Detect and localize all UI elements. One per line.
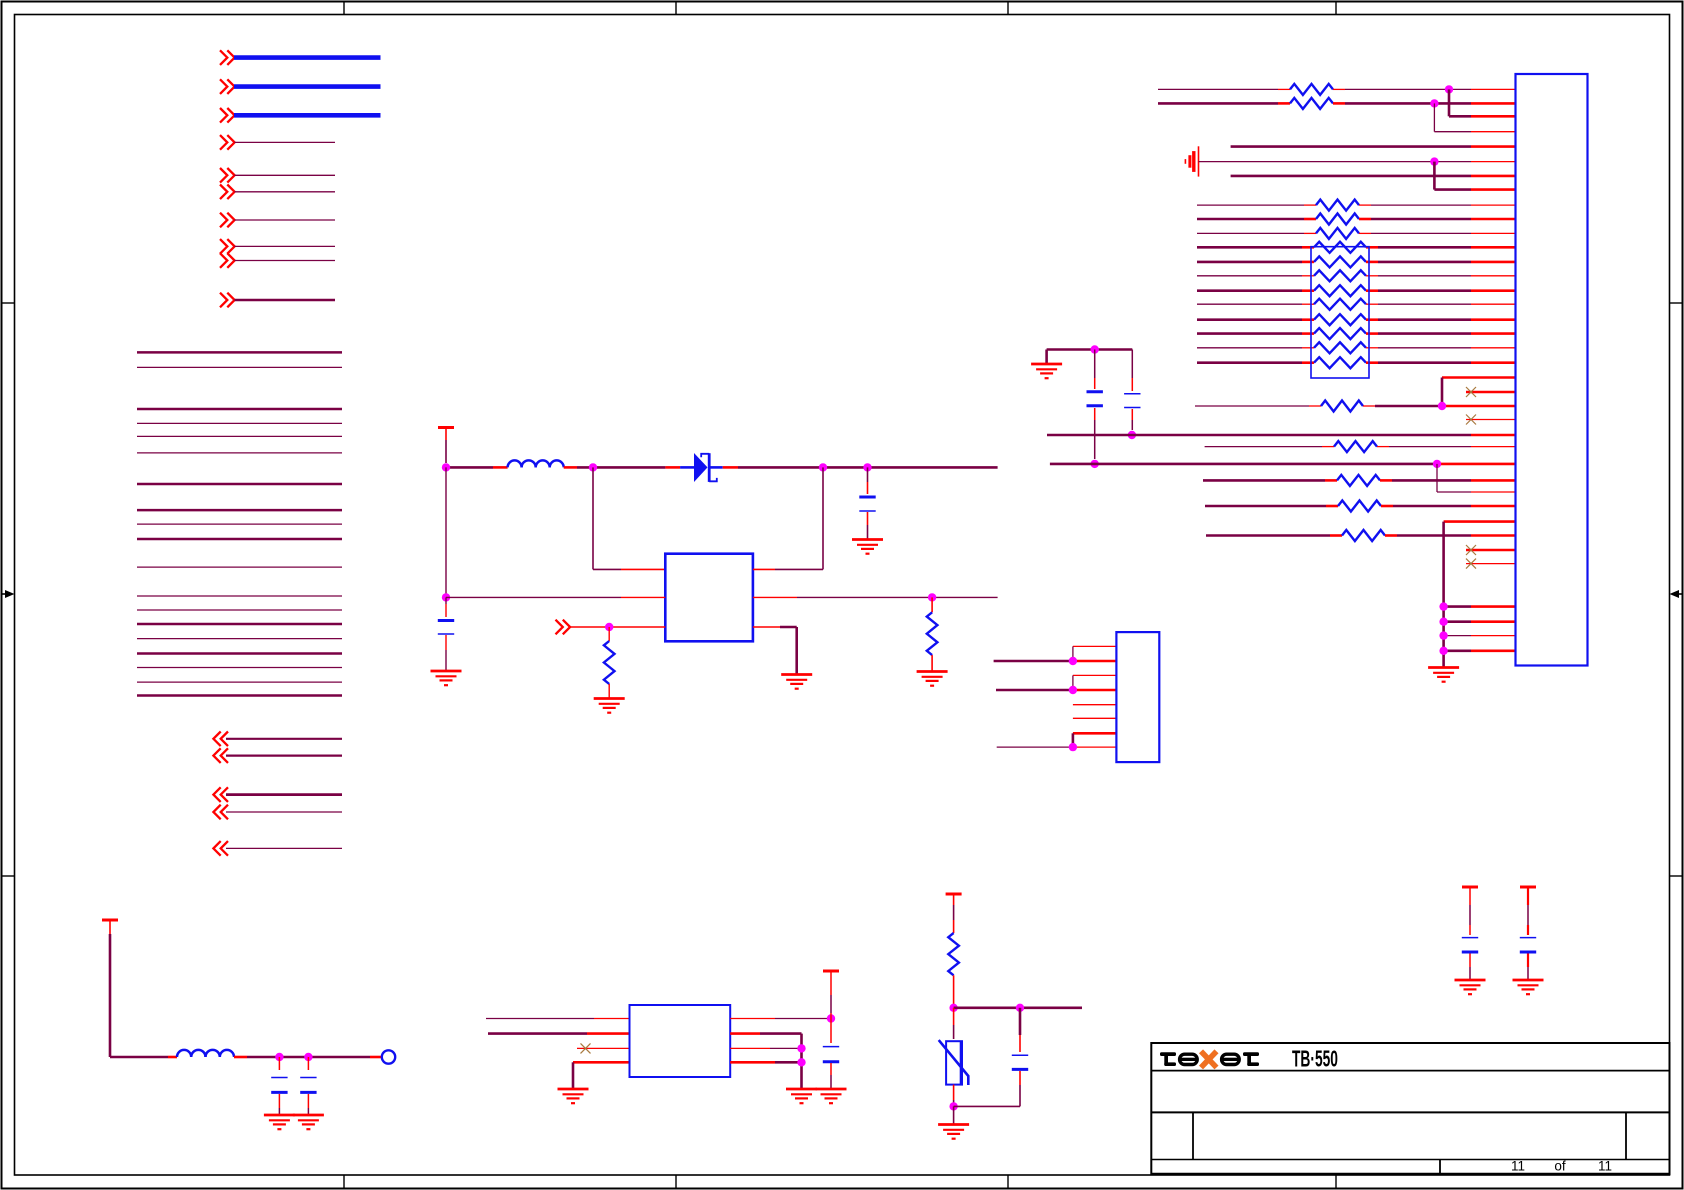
wire net J1 row17 + resistor RN1-6 <box>1197 314 1516 325</box>
diode D1 (Schottky) <box>680 453 723 482</box>
ground R3 <box>917 672 948 686</box>
junction left rail GND line <box>442 593 450 601</box>
wire net stub L15 <box>137 638 342 640</box>
junction C2 tap <box>863 463 871 471</box>
junction C4 to net <box>1128 431 1136 439</box>
wire net stub L12 <box>137 595 342 597</box>
wire net J1 row30 + resistor R12 <box>1205 501 1516 512</box>
wire net stub L13 <box>137 609 342 611</box>
wire net J1 row12 + resistor RN1-1 <box>1197 242 1516 253</box>
teXet logo <box>1160 1051 1259 1067</box>
wire step row1 to pin3 <box>1449 89 1516 116</box>
junction C6 <box>304 1053 312 1061</box>
ground C5 <box>264 1115 295 1129</box>
port IN9 (sheet entry chevron) <box>220 253 235 268</box>
wire from port IN9 <box>235 260 336 262</box>
wire net J1 row16 + resistor RN1-5 <box>1197 299 1516 310</box>
no-connect pin22 <box>1466 387 1516 397</box>
ground C1 <box>431 671 462 685</box>
wire net stub L1 <box>137 351 342 354</box>
wire J2 pin1 step <box>1073 646 1117 661</box>
wire EN to U1 pin3 <box>570 626 665 628</box>
wire C8 bottom to varistor bottom <box>954 1105 1020 1107</box>
wire from port OUT5 <box>226 847 342 849</box>
capacitor C8 <box>1012 1008 1028 1107</box>
wire net J1 row15 + resistor RN1-4 <box>1197 285 1516 296</box>
junction ground row37 <box>1439 631 1447 639</box>
wire from port IN10 <box>235 299 336 302</box>
wire J2 pin5 stub <box>1073 704 1117 706</box>
wire ground rail vertical <box>1442 522 1445 668</box>
junction EN/R2 <box>605 623 613 631</box>
wire varistor node <box>954 1006 1082 1009</box>
wire ground pin row35 <box>1444 605 1516 608</box>
port IN3 (sheet entry chevron) <box>220 108 235 123</box>
wire net to J2 pin8 <box>997 746 1117 748</box>
capacitor C9 <box>1462 889 1478 980</box>
wire U1 right pin3 to ground <box>753 627 797 675</box>
capacitor C7 <box>823 1019 839 1090</box>
junction C8 top <box>1016 1004 1024 1012</box>
ground C9 <box>1455 980 1486 994</box>
port IN10 (sheet entry chevron) <box>220 293 235 308</box>
wire U1 pin1 riser <box>593 467 665 569</box>
resistor R3 <box>927 597 938 670</box>
junction VDD node <box>827 1014 835 1022</box>
junction VIN rail <box>442 463 450 471</box>
junction varistor top <box>949 1004 957 1012</box>
wire net J1 row10 + resistor R7 <box>1197 214 1516 225</box>
wire VBAT to L2 <box>110 1056 177 1059</box>
wire net stub L16 <box>137 652 342 655</box>
wire U2 right pin2 to ground rail <box>730 1034 801 1089</box>
power rail bar VBAT <box>102 920 118 1057</box>
junction J2 pin2 <box>1069 657 1077 665</box>
IC U1 (boost controller) <box>665 554 753 642</box>
capacitor C2 <box>859 467 875 539</box>
power rail bar C9 <box>1462 886 1478 889</box>
junction J2 pin8 <box>1069 743 1077 751</box>
junction ground row35 <box>1439 602 1447 610</box>
wire net J1 row26 + resistor R10 <box>1205 441 1516 452</box>
wire main node VIN to L1 <box>446 466 508 469</box>
wire U2 right pin3 <box>730 1047 801 1049</box>
junction row27 <box>1433 460 1441 468</box>
junction row2 <box>1430 99 1438 107</box>
wire net stub L6 <box>137 452 342 454</box>
wire step row6 to pin8 <box>1434 162 1515 190</box>
capacitor C3 <box>1087 350 1103 460</box>
wire net stub L11 <box>137 566 342 568</box>
junction ground row36 <box>1439 618 1447 626</box>
wire net J1 row13 + resistor RN1-2 <box>1197 256 1516 267</box>
wire net stub L17 <box>137 667 342 669</box>
wire net to U2 pin2 <box>488 1032 630 1035</box>
junction varistor bottom <box>949 1102 957 1110</box>
junction ground row38 <box>1439 647 1447 655</box>
power rail bar VIN2 <box>946 894 962 933</box>
ground C6 <box>293 1115 324 1129</box>
junction right pin4 <box>797 1058 805 1066</box>
inductor L1 <box>508 460 564 467</box>
resistor R14 <box>948 933 959 1008</box>
port IN8 (sheet entry chevron) <box>220 239 235 254</box>
junction J2 pin4 <box>1069 686 1077 694</box>
power rail bar VIN <box>438 428 454 464</box>
wire from port IN5 <box>235 174 336 176</box>
wire J2 pin7 step <box>1073 733 1117 747</box>
wire net stub L8 <box>137 509 342 512</box>
varistor RV1 <box>939 1008 969 1107</box>
port OUT1 (sheet exit chevron) <box>213 732 228 747</box>
wire ground pin row37 <box>1444 635 1516 637</box>
wire net J1 row32 + resistor R13 <box>1206 530 1516 541</box>
port IN5 (sheet entry chevron) <box>220 168 235 183</box>
connector J2 <box>1116 632 1159 762</box>
wire net J1 row1 + resistor R4 <box>1158 84 1516 95</box>
wire net stub L5 <box>137 435 342 437</box>
sheet number 11 of 11 <box>1511 1159 1612 1174</box>
wire net J1 row28 + resistor R11 <box>1203 475 1516 486</box>
wire net J1 row25 <box>1047 434 1516 437</box>
wire ground pin row38 <box>1444 649 1516 652</box>
junction cap header <box>1091 345 1099 353</box>
junction C5 <box>275 1053 283 1061</box>
wire J2 pin3 step <box>1073 675 1117 690</box>
ground C7 <box>816 1089 847 1103</box>
junction R3 tap <box>928 593 936 601</box>
wire net stub L2 <box>137 366 342 368</box>
wire L1 to D1 anode <box>564 466 680 469</box>
wire from port OUT4 <box>226 811 342 813</box>
no-connect U2 pin3 <box>577 1043 630 1053</box>
wire from port OUT2 <box>226 754 342 756</box>
wire U1 right pin1 to output <box>753 467 823 569</box>
junction right pin3 <box>797 1044 805 1052</box>
wire net stub L3 <box>137 408 342 411</box>
port OUT5 (sheet exit chevron) <box>213 841 228 856</box>
junction feedback tap <box>819 463 827 471</box>
no-connect pin33 <box>1466 545 1516 555</box>
ground connector rail <box>1428 668 1459 682</box>
TB-550 model text <box>1292 1047 1338 1072</box>
port EN (chevron) <box>556 620 571 635</box>
wire from port IN4 <box>235 141 336 143</box>
wire U2 right pin1 to VDD node <box>730 1018 831 1020</box>
wire net stub L9 <box>137 523 342 525</box>
ground C2 <box>852 540 883 554</box>
bus wire B1 <box>234 55 381 60</box>
capacitor C10 <box>1520 889 1536 980</box>
port IN4 (sheet entry chevron) <box>220 135 235 150</box>
wire D1 cathode to output <box>723 466 998 469</box>
bus wire B3 <box>234 113 381 118</box>
wire J2 pin6 stub <box>1073 717 1117 719</box>
ground R2 <box>594 699 625 713</box>
wire from port IN6 <box>235 191 336 193</box>
capacitor C1 <box>438 597 454 671</box>
capacitor C6 <box>300 1057 316 1115</box>
wire net stub L10 <box>137 538 342 541</box>
capacitor C4 <box>1124 350 1140 431</box>
port IN7 (sheet entry chevron) <box>220 213 235 228</box>
no-connect pin24 <box>1466 415 1516 425</box>
junction row6 <box>1430 157 1438 165</box>
wire net J1 row7 <box>1231 175 1516 178</box>
wire net J1 row14 + resistor RN1-3 <box>1197 270 1516 281</box>
wire U2 pin4 to ground <box>573 1062 630 1089</box>
wire net stub L14 <box>137 623 342 626</box>
port OUT2 (sheet exit chevron) <box>213 748 228 763</box>
inductor L2 <box>177 1050 234 1057</box>
wire GND/FB line <box>446 596 665 598</box>
ground varistor <box>938 1125 969 1139</box>
wire from port IN8 <box>235 245 336 247</box>
power rail bar VDD <box>823 971 839 1019</box>
wire net J1 row23 + resistor R9 <box>1195 401 1516 412</box>
svg-text:11: 11 <box>1511 1159 1525 1174</box>
junction C3 to net <box>1091 460 1099 468</box>
wire U2 right pin4 <box>730 1061 801 1064</box>
ground U1 pin3 <box>781 675 812 689</box>
wire net J1 row18 + resistor RN1-7 <box>1197 328 1516 339</box>
wire net stub L4 <box>137 422 342 424</box>
port IN6 (sheet entry chevron) <box>220 185 235 200</box>
ground U2 right rail <box>786 1089 817 1103</box>
wire net J1 row19 + resistor RN1-8 <box>1197 342 1516 353</box>
wire net J1 row27 <box>1050 463 1516 466</box>
wire net stub L19 <box>137 694 342 697</box>
wire ground pin row36 <box>1444 620 1516 623</box>
wire step row2 to pin4 <box>1434 103 1515 131</box>
junction row1 <box>1445 85 1453 93</box>
wire varistor to ground <box>953 1106 955 1124</box>
wire from port IN7 <box>235 219 336 221</box>
no-connect pin34 <box>1466 559 1516 569</box>
wire net to J2 pin4 <box>996 689 1116 692</box>
wire net J1 row5 <box>1231 145 1516 148</box>
resistor R2 <box>604 627 615 698</box>
IC U2 <box>630 1005 731 1077</box>
port OUT3 (sheet exit chevron) <box>213 787 228 802</box>
svg-text:11: 11 <box>1598 1159 1612 1174</box>
wire net to J2 pin2 <box>994 660 1117 663</box>
wire cap header net <box>1047 350 1133 365</box>
antenna symbol (RF feed) <box>1185 146 1198 176</box>
wire U1 right pin2 feedback <box>753 596 998 598</box>
wire step row23 up to pin21 <box>1442 378 1516 407</box>
title block <box>1151 1043 1669 1174</box>
wire from port OUT3 <box>226 793 342 796</box>
capacitor C5 <box>271 1057 287 1115</box>
wire from port OUT1 <box>226 738 342 740</box>
ground cap header <box>1031 364 1062 378</box>
svg-text:TB·550: TB·550 <box>1292 1047 1338 1072</box>
wire antenna net row6 <box>1199 161 1516 163</box>
port IN2 (sheet entry chevron) <box>220 79 235 94</box>
ground U2 pin4 <box>558 1089 589 1103</box>
terminal pin (open circle) <box>382 1050 395 1063</box>
bus wire B2 <box>234 84 381 89</box>
power rail bar C10 <box>1520 886 1536 889</box>
wire net J1 row11 + resistor R8 <box>1197 228 1516 239</box>
junction switch node <box>589 463 597 471</box>
wire net J1 row2 + resistor R5 <box>1158 98 1516 109</box>
wire net J1 row20 + resistor RN1-9 <box>1197 357 1516 368</box>
left rail wire down <box>445 467 447 597</box>
wire net J1 row9 + resistor R6 <box>1197 200 1516 211</box>
resistor network RN1 box <box>1311 247 1369 378</box>
junction row23 <box>1438 402 1446 410</box>
wire step row27 to pin29 <box>1437 464 1516 492</box>
connector J1 <box>1516 74 1588 666</box>
ground C10 <box>1513 980 1544 994</box>
wire net stub L7 <box>137 483 342 486</box>
port OUT4 (sheet exit chevron) <box>213 805 228 820</box>
wire pin31 to ground rail <box>1444 520 1516 523</box>
svg-text:of: of <box>1554 1159 1566 1174</box>
wire net to U2 pin1 <box>486 1018 630 1020</box>
wire L2 to output pin <box>234 1056 381 1059</box>
port IN1 (sheet entry chevron) <box>220 50 235 65</box>
wire net stub L18 <box>137 681 342 683</box>
